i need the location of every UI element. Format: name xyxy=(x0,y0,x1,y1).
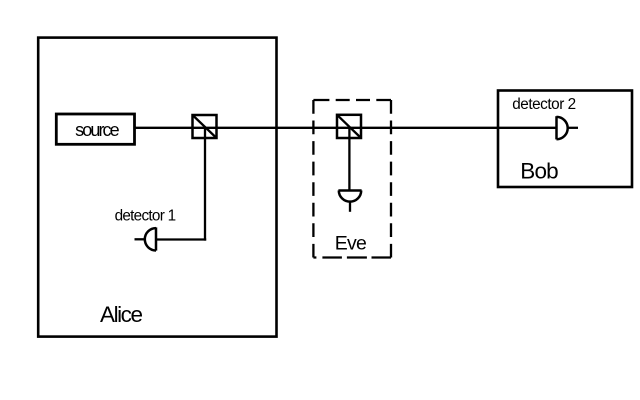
box Eve (dashed) left edge xyxy=(312,100,314,258)
wire: corner left to detector 1 xyxy=(156,238,206,240)
box Bob xyxy=(498,91,632,188)
svg-text:Alice: Alice xyxy=(100,302,143,327)
svg-text:detector 2: detector 2 xyxy=(512,96,576,113)
svg-text:Bob: Bob xyxy=(520,159,558,184)
beam splitter BS1 xyxy=(193,115,217,138)
box Eve (dashed) right edge xyxy=(390,100,392,258)
svg-text:source: source xyxy=(75,120,119,140)
detector 2 xyxy=(557,116,579,139)
detector 1 xyxy=(135,227,157,250)
beam splitter BS2 (Eve) xyxy=(337,115,361,138)
wire: BS2 down to Eve detector xyxy=(348,128,350,191)
box Alice xyxy=(38,38,276,337)
wire: BS1 down to corner xyxy=(204,128,206,241)
svg-text:Eve: Eve xyxy=(335,233,367,255)
box Eve (dashed) top edge xyxy=(313,99,391,101)
box Eve (dashed) bottom edge xyxy=(313,256,391,258)
detector Eve xyxy=(338,191,361,212)
svg-text:detector 1: detector 1 xyxy=(115,208,177,225)
source box xyxy=(56,114,134,144)
wire: main beam from source to detector 2 xyxy=(135,127,557,129)
